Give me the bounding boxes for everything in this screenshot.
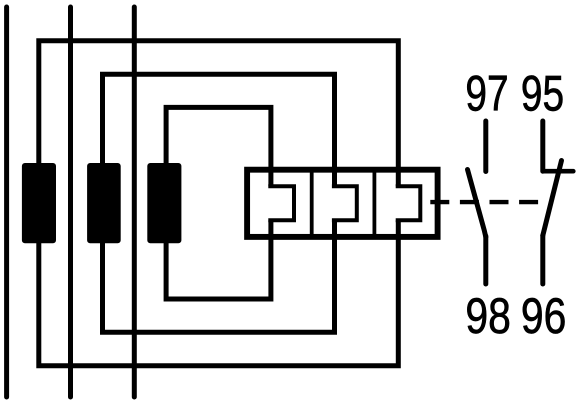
wire loop 2 middle winding	[103, 74, 335, 332]
wire L1 phase conductor	[4, 7, 9, 397]
NC contact 95-96 seat bar	[543, 169, 574, 174]
wire L3 phase conductor	[132, 7, 137, 397]
svg-text:95: 95	[521, 64, 564, 121]
NO contact 97-98 top terminal	[483, 121, 488, 172]
NC contact 95-96 top terminal	[540, 121, 545, 171]
trip unit box U1	[247, 170, 438, 237]
trip unit divider 1	[310, 170, 314, 237]
trip unit divider 2	[372, 170, 376, 237]
wire L2 phase conductor	[68, 7, 73, 397]
NO contact 97-98 moving arm	[468, 170, 486, 238]
heater element phase 3	[147, 163, 181, 243]
svg-text:98: 98	[465, 287, 510, 344]
wire loop 3 inner winding	[166, 107, 271, 299]
svg-text:96: 96	[521, 287, 566, 344]
NC contact 95-96 bottom terminal	[540, 236, 545, 285]
svg-text:97: 97	[465, 64, 508, 121]
heater element phase 1	[22, 163, 56, 243]
wire loop 1 outer winding	[39, 41, 399, 366]
bimetal actuator loop 3 (trip unit cell 1)	[268, 186, 294, 220]
bimetal actuator loop 1 (trip unit cell 3)	[396, 186, 421, 220]
NC contact 95-96 moving arm	[543, 161, 562, 236]
bimetal actuator loop 2 (trip unit cell 2)	[332, 186, 357, 220]
mechanical linkage (dashed)	[430, 200, 538, 204]
heater element phase 2	[87, 163, 121, 243]
NO contact 97-98 bottom terminal	[483, 236, 488, 284]
